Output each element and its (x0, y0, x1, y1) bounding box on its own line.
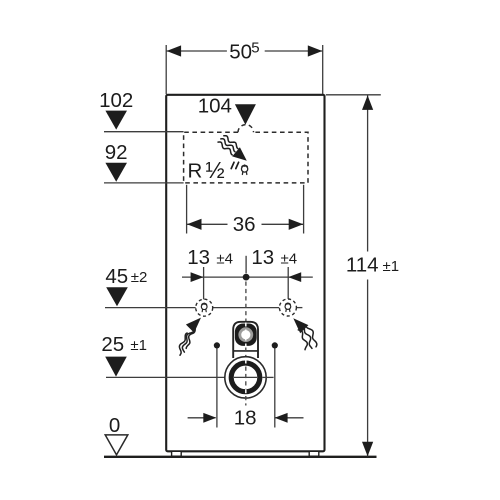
right fixing bolt: dot (272, 342, 278, 348)
sanitary module panel outline (166, 95, 324, 452)
level marker 0: open triangle (floor datum) (105, 435, 128, 455)
dimension 13: left arrowhead (points right at left tap axis) (191, 272, 204, 282)
centre axis dashes between bracket and outlet (245, 348, 247, 359)
centre axis dashes through outlet (245, 360, 247, 367)
svg-text:13: 13 (187, 246, 210, 269)
water flow arrowhead (supply, pointing down-right) (232, 147, 247, 161)
svg-text:45: 45 (105, 265, 128, 288)
water supply zone: dashed arc at top (pipe entry) (238, 125, 254, 133)
dimension 13: right arrowhead (points left at right tap axis) (288, 272, 301, 282)
svg-text:18: 18 (234, 406, 257, 429)
right fixing bolt: stem line (274, 345, 276, 427)
centre axis white dashes over inlet block (245, 323, 247, 348)
level marker 45: leader line through tap circles (105, 307, 196, 309)
right tap water wavy lines (298, 326, 317, 350)
dimension 50.5: right extension line (322, 45, 324, 94)
dimension 114: top extension line (326, 94, 381, 96)
dimension 50.5: right arrowhead (308, 45, 323, 56)
dimension 13: centre dot on module axis (243, 274, 250, 281)
outlet bend: outer circle (225, 357, 266, 398)
level marker 102: filled triangle (105, 111, 127, 130)
svg-text:±2: ±2 (131, 269, 148, 286)
right tap position: dashed circle (279, 299, 296, 316)
left tap extension line (203, 267, 205, 300)
water supply zone: dashed rectangle (184, 132, 308, 183)
dimension 18: left arrowhead (points right) (203, 413, 216, 423)
svg-text:104: 104 (198, 94, 232, 117)
dimension 50.5: dimension line (166, 50, 227, 52)
right tap water arrowhead (pointing up-left) (293, 318, 308, 333)
level marker 45: filled triangle (106, 287, 128, 306)
double prime (inch mark) (231, 162, 238, 168)
dimension 114: dimension line lower part (367, 280, 369, 457)
svg-text:102: 102 (99, 89, 133, 112)
right tap extension line (287, 267, 289, 299)
svg-text:±1: ±1 (130, 337, 147, 354)
svg-text:92: 92 (105, 141, 128, 164)
module centre axis: dashed line from dot to inlet bracket (245, 282, 247, 322)
dimension 18: right line (275, 417, 303, 419)
level marker 104: filled triangle (235, 104, 256, 124)
svg-text:13: 13 (251, 246, 274, 269)
dimension 36: dimension line (187, 223, 228, 225)
left tap icon (201, 303, 207, 312)
dimension 18: right arrowhead (points left) (275, 413, 288, 423)
svg-text:114: 114 (346, 253, 379, 276)
dimension 36: left arrowhead (187, 219, 202, 230)
svg-text:±1: ±1 (383, 258, 400, 275)
level marker 25: filled triangle (105, 357, 127, 377)
leader line continuation through outlet (234, 376, 257, 378)
svg-text:½: ½ (206, 157, 225, 183)
left fixing bolt: dot (214, 342, 220, 348)
inlet bracket: outer rounded outline (233, 322, 258, 358)
left tap position: dashed circle (196, 299, 213, 316)
dimension 50.5: left extension line (165, 45, 167, 94)
dimension 36: right arrowhead (289, 219, 304, 230)
right tap icon (285, 303, 291, 312)
dimension 36: left extension line (186, 185, 188, 234)
dimension 36: right extension line (303, 185, 305, 234)
dimension 13: dimension line (182, 276, 313, 278)
floor line (104, 456, 377, 458)
dimension 18: left line (188, 417, 216, 419)
svg-text:R: R (188, 159, 203, 182)
inlet connector: grey ring (238, 327, 253, 342)
level marker 92: filled triangle (105, 163, 127, 182)
module centre axis: short line above dot (245, 256, 247, 273)
dimension 114: top arrowhead (362, 95, 373, 110)
outlet bend: black ring (231, 363, 260, 392)
level marker 92: leader line to water zone bottom (104, 182, 184, 184)
level marker 25: leader line through outlet centre (left part) (106, 376, 229, 378)
dimension 114: bottom arrowhead (362, 442, 373, 457)
water flow wavy lines (supply) (218, 136, 238, 155)
svg-text:25: 25 (101, 333, 124, 356)
svg-text:36: 36 (233, 213, 256, 236)
level marker 102: leader line to water zone top (104, 131, 184, 133)
svg-text:50: 50 (229, 41, 252, 64)
svg-text:0: 0 (109, 414, 120, 437)
dimension 114: dimension line upper part (367, 95, 369, 252)
right foot (309, 451, 319, 456)
svg-text:5: 5 (251, 40, 259, 57)
left tap water wavy lines (179, 328, 195, 355)
dimension 50.5: left arrowhead (167, 45, 182, 56)
inlet connector: white core (241, 330, 250, 339)
svg-text:±4: ±4 (216, 251, 233, 268)
left tap water arrowhead (pointing up-right) (186, 318, 201, 333)
tap icon next to R 1/2 label (241, 165, 247, 174)
svg-text:±4: ±4 (281, 251, 298, 268)
inlet connector: black block (235, 324, 257, 346)
left fixing bolt: stem line (216, 345, 218, 427)
left foot (172, 451, 182, 456)
inlet bracket: neck line (233, 350, 258, 352)
